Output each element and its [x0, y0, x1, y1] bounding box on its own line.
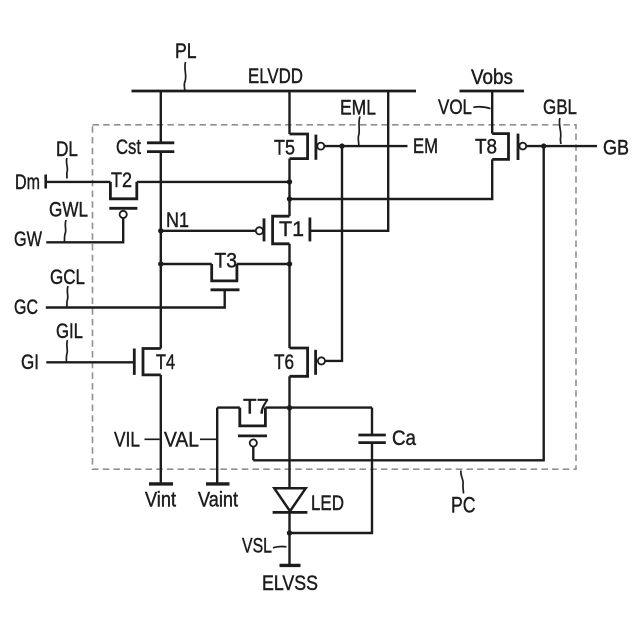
svg-text:GC: GC: [14, 295, 38, 319]
wire ELVDD to T5: [288, 91, 290, 134]
svg-text:Vaint: Vaint: [198, 487, 238, 511]
wire LED cathode: [288, 512, 290, 564]
junction dot anode node: [287, 405, 292, 410]
wire Dm to T2: [46, 181, 111, 183]
wire T3 left: [161, 263, 212, 265]
wire T5 drain: [288, 159, 290, 217]
svg-text:GW: GW: [14, 227, 43, 251]
svg-text:Vint: Vint: [145, 487, 176, 511]
svg-text:T2: T2: [111, 168, 132, 192]
LED diode: [273, 488, 308, 512]
wire T1 to T6: [288, 347, 290, 349]
wire T4 to Vint: [160, 375, 162, 484]
transistor T6: [290, 348, 326, 376]
wire T7 left (VAL): [217, 406, 240, 408]
svg-text:ELVDD: ELVDD: [248, 64, 303, 88]
svg-text:T7: T7: [243, 394, 269, 418]
wire T5 gate to EM: [324, 145, 407, 147]
junction dot EM line: [339, 143, 344, 148]
svg-text:T3: T3: [215, 248, 238, 272]
terminal Vaint: [206, 482, 230, 485]
svg-text:T4: T4: [156, 350, 175, 374]
svg-text:EML: EML: [340, 95, 376, 119]
wire VAL branch to Vaint: [216, 408, 218, 484]
junction dot VSL node: [287, 530, 292, 535]
leader VAL: [200, 438, 216, 440]
wire anode node to LED: [288, 408, 290, 489]
svg-text:T1: T1: [279, 217, 304, 241]
svg-text:PL: PL: [175, 39, 197, 63]
svg-text:VIL: VIL: [114, 427, 140, 451]
svg-text:T5: T5: [274, 135, 295, 159]
junction dot T5-T8 node: [287, 196, 292, 201]
leader VIL: [145, 438, 160, 440]
svg-text:ELVSS: ELVSS: [262, 571, 318, 595]
node N1 junction dot: [158, 228, 163, 233]
wire T3 gate to GC: [46, 290, 225, 308]
leader PC: [461, 471, 464, 494]
wire Vobs to T8: [491, 91, 493, 134]
transistor T5: [290, 134, 325, 160]
junction dot GB line: [541, 143, 546, 148]
wire T2 to node column: [137, 181, 290, 183]
wire T7 gate down to bottom rail: [252, 447, 254, 461]
svg-text:GBL: GBL: [543, 95, 577, 119]
svg-text:GIL: GIL: [56, 319, 83, 343]
transistor T1: [256, 216, 310, 244]
leader GCL: [67, 286, 68, 307]
leader VOL: [473, 107, 490, 109]
svg-text:DL: DL: [56, 137, 78, 161]
svg-text:LED: LED: [311, 491, 344, 515]
svg-text:T8: T8: [475, 134, 497, 158]
transistor T4: [134, 349, 161, 375]
wire Cst to T4 (N1 column): [160, 152, 162, 349]
transistor T3: [211, 264, 240, 290]
wire N1 to T1 gate: [161, 230, 256, 232]
leader GBL: [559, 118, 560, 144]
svg-text:GB: GB: [603, 135, 629, 159]
terminal ELVSS: [280, 564, 301, 567]
leader GIL: [66, 340, 67, 362]
leader VSL: [273, 547, 287, 548]
power rail PL (ELVDD): [132, 90, 417, 93]
wire T2 gate to GW: [46, 218, 123, 242]
svg-text:EM: EM: [413, 134, 438, 158]
svg-text:VSL: VSL: [242, 533, 272, 557]
wire T6 drain: [288, 376, 290, 408]
dashed box PC (pixel circuit boundary): [93, 125, 577, 469]
svg-text:GI: GI: [21, 350, 39, 374]
wire Ca bottom to LED cathode: [290, 443, 373, 533]
transistor T7: [238, 408, 267, 447]
leader EML: [358, 117, 360, 146]
terminal Vint: [149, 482, 173, 485]
leader DL: [65, 158, 68, 179]
capacitor Ca: [358, 435, 385, 443]
wire Ca top: [371, 408, 373, 435]
transistor T8: [492, 134, 526, 160]
wire T8 gate to GB: [526, 145, 597, 147]
wire GI to T4 gate: [46, 361, 134, 363]
wire EM line down to T6 gate: [325, 146, 342, 361]
terminal tick Dm: [44, 175, 47, 189]
wire GB node down right side: [253, 146, 543, 460]
power rail Vobs: [460, 90, 525, 93]
wire T7 right to Ca: [265, 406, 372, 408]
svg-text:GCL: GCL: [50, 265, 85, 289]
capacitor Cst: [147, 143, 174, 152]
wire ELVDD to T1 back gate: [310, 91, 388, 231]
svg-text:T6: T6: [274, 350, 294, 374]
leader GWL: [64, 220, 66, 242]
svg-text:Ca: Ca: [392, 426, 416, 450]
svg-text:GWL: GWL: [49, 197, 88, 221]
svg-text:VOL: VOL: [438, 95, 472, 119]
wire T5 drain to T8 source: [290, 159, 493, 199]
junction dot T3 right: [287, 261, 292, 266]
transistor T2: [109, 182, 137, 218]
wire ELVDD to Cst: [160, 91, 162, 143]
svg-text:Dm: Dm: [15, 170, 40, 194]
junction dot T3 left: [158, 261, 163, 266]
junction dot Dm-T5 node: [287, 179, 292, 184]
wire T1 drain: [288, 244, 290, 348]
wire T3 right: [237, 263, 290, 265]
svg-text:PC: PC: [451, 492, 476, 517]
leader PL: [184, 62, 186, 91]
svg-text:VAL: VAL: [164, 427, 199, 451]
svg-text:Cst: Cst: [116, 135, 141, 159]
svg-text:N1: N1: [166, 208, 189, 232]
svg-text:Vobs: Vobs: [471, 65, 513, 89]
